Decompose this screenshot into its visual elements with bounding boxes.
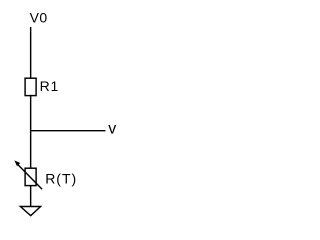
wire R1 to R(T) bbox=[30, 96, 32, 169]
resistor R1 bbox=[25, 78, 36, 95]
svg-text:R(T): R(T) bbox=[45, 170, 77, 186]
wire R(T) to ground bbox=[30, 186, 32, 207]
svg-text:v: v bbox=[108, 121, 116, 138]
ground bbox=[20, 207, 40, 216]
wire V0 to R1 bbox=[30, 27, 32, 78]
thermistor arrow shaft bbox=[17, 164, 42, 189]
thermistor R(T) bbox=[25, 168, 36, 185]
svg-text:R1: R1 bbox=[40, 78, 60, 94]
thermistor arrowhead bbox=[14, 160, 20, 166]
svg-text:V0: V0 bbox=[30, 10, 48, 26]
wire node to v bbox=[31, 130, 106, 132]
